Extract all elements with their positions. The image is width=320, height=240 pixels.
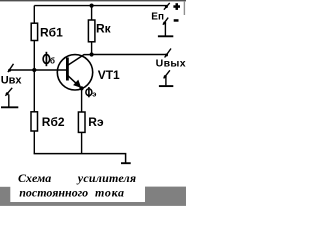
gray block bottom left <box>0 187 10 203</box>
svg-text:тока: тока <box>95 185 125 199</box>
wire: output wire to Uvyh terminal <box>92 54 168 56</box>
svg-text:Uвх: Uвх <box>1 74 23 86</box>
window top border strip <box>0 0 186 1</box>
gray block bottom right <box>145 187 186 203</box>
label + (plus sign) <box>173 3 180 10</box>
resistor Rb2 <box>31 112 38 131</box>
svg-text:Схема: Схема <box>18 171 51 185</box>
svg-text:э: э <box>92 90 96 99</box>
node: top rail / Rk junction <box>90 4 94 8</box>
ground (Uvh) <box>1 94 18 107</box>
terminal slash (Uvyh ground) <box>164 70 170 78</box>
node: base junction (phi_b) <box>32 68 36 72</box>
resistor Rb1 <box>31 23 37 40</box>
ground (Ep negative) <box>158 24 173 37</box>
resistor Rk <box>88 20 95 42</box>
window right edge scrollbar remnant <box>184 1 185 15</box>
svg-text:Rб1: Rб1 <box>40 26 63 40</box>
wire: bottom ground rail <box>34 154 126 163</box>
wire: top supply rail <box>34 5 167 7</box>
transistor VT1 emitter lead with arrow <box>68 76 82 89</box>
label phi_e <box>86 87 97 99</box>
wire: base node down to Rb2 <box>33 70 35 112</box>
svg-text:Uвых: Uвых <box>156 58 186 70</box>
terminal slash + plus (Ep positive) <box>164 3 170 10</box>
terminal slash Uvh (input) <box>8 64 14 72</box>
terminal slash Uvyh <box>165 49 171 58</box>
terminal slash (Ep negative) <box>163 18 168 25</box>
wire: Rb1 bottom to base node <box>33 41 35 71</box>
svg-text:Rк: Rк <box>96 22 112 36</box>
node: emitter junction (phi_e) <box>80 86 84 90</box>
terminal slash (Uvh ground) <box>5 88 12 96</box>
transistor VT1 collector lead <box>68 55 92 66</box>
wire: Rk bottom to collector node <box>91 42 93 55</box>
svg-text:усилителя: усилителя <box>76 171 137 185</box>
wire: Rk lead from top rail <box>91 6 93 21</box>
label - (minus sign) <box>174 19 179 22</box>
svg-text:Rэ: Rэ <box>88 115 104 129</box>
ground (bottom rail) <box>121 162 131 164</box>
resistor Re <box>78 112 85 132</box>
label phi_b <box>43 52 55 66</box>
node: collector junction <box>90 52 94 56</box>
wire: emitter down to Re <box>81 88 83 112</box>
transistor VT1 circle <box>57 55 92 90</box>
transistor VT1 base bar <box>66 58 69 81</box>
svg-text:б: б <box>50 57 55 66</box>
wire: Rb2 bottom to ground rail <box>33 131 35 154</box>
wire: input wire Uvh to base <box>10 69 68 71</box>
svg-text:Rб2: Rб2 <box>42 115 65 129</box>
wire: Re bottom to ground rail <box>81 132 83 153</box>
ground (Uvyh) <box>159 77 173 86</box>
svg-text:Eп: Eп <box>151 11 164 22</box>
wire: left rail from top rail down to Rb1 <box>33 6 35 24</box>
svg-text:постоянного: постоянного <box>19 185 88 199</box>
svg-text:VT1: VT1 <box>98 68 120 82</box>
gray bottom strip <box>0 202 186 206</box>
